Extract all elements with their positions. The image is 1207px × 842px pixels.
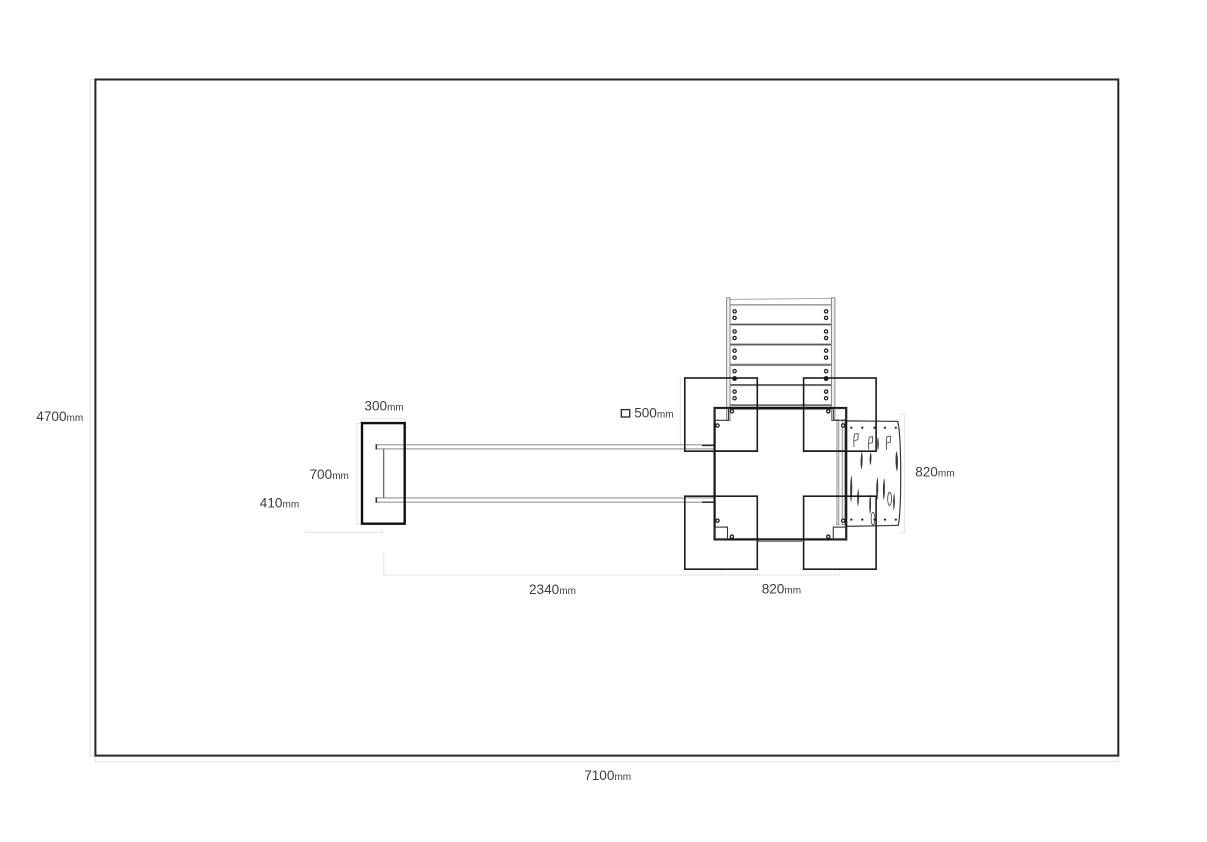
grain flag 2: [869, 437, 873, 450]
panel wood grains: [850, 434, 898, 526]
dimension line 820 bottom: [721, 573, 839, 575]
quadrant square TR: [804, 408, 847, 451]
rail 1 dark end segment: [702, 444, 714, 446]
post notch BR: [833, 527, 846, 539]
ladder screws: [733, 310, 828, 400]
post notch TL: [715, 408, 729, 420]
bench anchor rectangle: [362, 423, 405, 524]
post notch TR: [833, 408, 846, 420]
monkey bar rail 1: [376, 445, 715, 449]
ladder slat 6 partial: [730, 406, 832, 409]
ladder slat 4: [730, 365, 832, 384]
quadrant square TL: [715, 408, 758, 451]
grain flag 1: [854, 434, 858, 448]
rail 2 dark end segment: [702, 501, 714, 503]
corner square TL: [685, 378, 758, 451]
ladder left rail: [727, 298, 730, 421]
post notch BL: [715, 527, 728, 539]
ladder slat 3: [730, 345, 832, 364]
ladder screws filled on corner-square edge: [732, 376, 737, 381]
dimension extension line 4700 vertical: [90, 79, 95, 756]
quadrant square BR: [804, 496, 847, 539]
dimension bracket 300 above bench rect: [362, 419, 405, 423]
grain big crescent: [895, 451, 898, 472]
legend square icon 500mm: [621, 410, 629, 417]
ladder slat 5: [730, 386, 832, 405]
dimension line 410: [306, 530, 383, 533]
ladder slat 2: [730, 325, 832, 344]
grain flag 3: [886, 436, 890, 450]
grain crescent: [893, 493, 895, 510]
rail 2 left end cap: [375, 497, 377, 502]
grain lens: [877, 437, 879, 451]
central platform square: [715, 408, 847, 539]
quadrant square BL: [715, 496, 758, 539]
panel mount rail A: [837, 420, 839, 525]
ladder right rail: [832, 298, 835, 421]
corner square BR: [804, 496, 877, 569]
rail 1 left end cap: [375, 444, 377, 449]
corner square BL: [685, 496, 758, 569]
dimension bracket 700 left of bench rect: [357, 423, 362, 523]
grain pod: [869, 494, 871, 514]
grain crescent: [857, 488, 859, 507]
grain crescent: [861, 451, 863, 469]
wavy climbing panel: [846, 421, 901, 527]
dimension bracket 820 right of panel: [901, 415, 905, 533]
rail connector bar: [383, 449, 385, 498]
panel mount rail B: [842, 420, 845, 525]
deck lip under bottom edge: [759, 540, 802, 543]
dimension line 2340 bottom: [384, 554, 722, 575]
grain hollow pod: [871, 512, 875, 525]
dimension extension line 7100 horizontal: [96, 757, 1119, 762]
sheet border frame: [95, 80, 1118, 756]
grain crescent: [876, 477, 878, 501]
panel dots: [850, 427, 897, 521]
ladder top cap line: [730, 298, 832, 299]
corner square TR: [804, 378, 877, 451]
dimension extension line 500 left of corner square: [679, 378, 681, 452]
grain tall crescent lower-left: [850, 475, 852, 503]
platform screws: [716, 410, 845, 539]
ladder slat 1: [730, 305, 832, 324]
monkey bar rail 2: [376, 498, 715, 502]
